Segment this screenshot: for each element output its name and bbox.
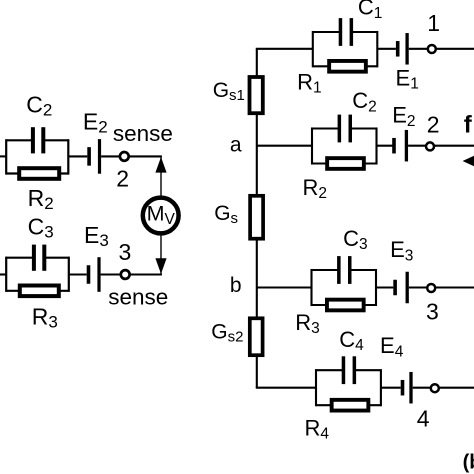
svg-text:f: f <box>464 111 473 138</box>
capacitor C3: two plates <box>337 256 351 284</box>
wire box R2 to battery E2 <box>68 155 87 157</box>
battery E3: short and long plates <box>87 257 101 292</box>
svg-text:b: b <box>230 274 242 297</box>
svg-text:4: 4 <box>417 406 430 432</box>
resistor R4: rectangle body <box>332 400 369 411</box>
wire battery E2 to terminal 2 <box>101 155 119 157</box>
wire bus to branch 4 box <box>256 387 316 389</box>
svg-text:2: 2 <box>427 112 440 138</box>
svg-text:2: 2 <box>116 165 129 191</box>
wire node b to branch 3 box <box>257 286 312 288</box>
branch4 parallel-box wire loop <box>316 369 381 406</box>
left branch2 parallel-box wire loop <box>6 139 68 174</box>
wire terminal 2 to edge <box>435 145 474 147</box>
resistor R3: rectangle body <box>327 300 364 311</box>
capacitor C1: two plates <box>339 18 353 46</box>
wire terminal 1 to edge <box>437 48 474 50</box>
wire box R4 to battery E4 <box>381 387 401 389</box>
branch3 parallel-box wire loop <box>312 269 377 306</box>
conductance Gs1 <box>250 77 263 113</box>
resistor R2: rectangle body <box>327 158 364 169</box>
capacitor C2: two plates <box>31 127 45 153</box>
wire bus to branch 1 box <box>256 48 313 50</box>
terminal 4 <box>431 384 439 392</box>
voltmeter MV circle <box>143 198 179 234</box>
resistor R2: rectangle body <box>19 168 59 179</box>
capacitor C4: two plates <box>342 356 356 384</box>
branch2 parallel-box wire loop <box>312 127 377 164</box>
arrowhead f pointing left <box>463 156 474 167</box>
capacitor C3: two plates <box>32 245 46 271</box>
svg-text:3: 3 <box>119 239 132 265</box>
capacitor C2: two plates <box>338 115 352 143</box>
conductance Gs2 <box>250 318 263 355</box>
svg-text:a: a <box>230 134 242 157</box>
wire terminal 4 to edge <box>440 387 474 389</box>
vertical bus wire (Gs chain) <box>256 49 258 388</box>
wire into left branch 2 <box>0 155 7 157</box>
battery E3: short and long plates <box>393 272 409 304</box>
wire box R1 to battery E1 <box>377 48 396 50</box>
battery E1: short and long plates <box>396 33 409 65</box>
terminal 3 <box>427 284 435 292</box>
terminal 3 (sense) <box>121 270 130 279</box>
wire battery E3 to terminal 3 <box>409 286 427 288</box>
wire into left branch 3 <box>0 273 7 275</box>
battery E4: short and long plates <box>401 372 413 404</box>
wire battery E3 to terminal 3 <box>101 273 120 275</box>
left branch3 parallel-box wire loop <box>6 257 69 292</box>
wire terminal 3 to edge <box>436 286 474 288</box>
branch1 parallel-box wire loop <box>313 31 378 67</box>
arrowhead down at node 3 tap <box>155 258 166 274</box>
wire battery E1 to terminal 1 <box>409 48 427 50</box>
arrowhead up at node 2 tap <box>155 157 166 173</box>
svg-text:sense: sense <box>113 121 173 146</box>
wire battery E2 to terminal 2 <box>408 145 425 147</box>
resistor R3: rectangle body <box>20 286 59 297</box>
wire box R2 to battery E2 <box>377 145 393 147</box>
wire terminal 3 to meter tap <box>131 273 162 275</box>
battery E2: short and long plates <box>392 130 408 162</box>
wire terminal 2 to meter tap <box>130 155 162 157</box>
svg-text:sense: sense <box>108 284 168 309</box>
conductance Gs <box>250 196 263 239</box>
svg-text:3: 3 <box>426 299 439 325</box>
terminal 2 (f) <box>426 142 434 150</box>
svg-text:(b: (b <box>463 451 474 473</box>
battery E2: short and long plates <box>87 139 101 174</box>
terminal 1 <box>428 45 436 53</box>
wire node a to branch 2 box <box>257 145 312 147</box>
terminal 2 (sense) <box>120 152 129 161</box>
measurement line between sense taps <box>160 156 162 274</box>
svg-text:1: 1 <box>427 10 440 36</box>
wire box R3 to battery E3 <box>376 286 393 288</box>
wire battery E4 to terminal 4 <box>413 387 431 389</box>
resistor R1: rectangle body <box>329 61 366 72</box>
wire box R3 to battery E3 <box>69 273 87 275</box>
